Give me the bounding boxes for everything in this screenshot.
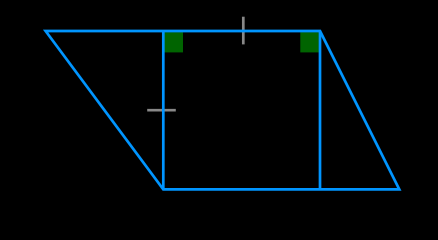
right-angle marker (left, green square) bbox=[164, 32, 183, 52]
right height line (blue) bbox=[319, 31, 322, 189]
trapezoid outline (blue) bbox=[46, 31, 400, 189]
left height line (blue) bbox=[162, 31, 165, 189]
tick mark on top edge (gray) bbox=[242, 17, 245, 45]
right-angle marker (right, green square) bbox=[300, 32, 318, 52]
tick mark on left height (gray) bbox=[147, 109, 176, 112]
